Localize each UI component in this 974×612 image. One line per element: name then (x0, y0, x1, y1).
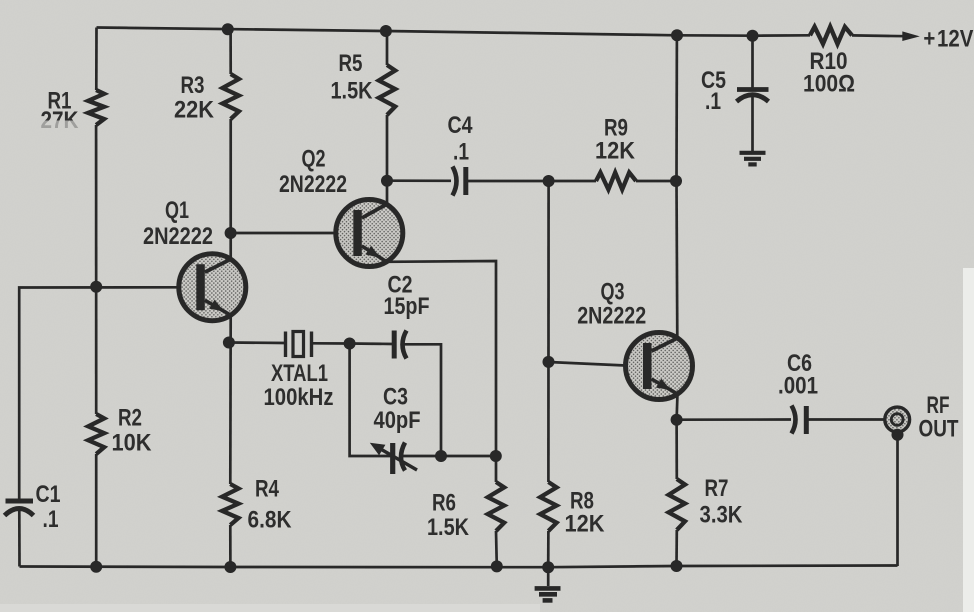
wire R10 to +12V arrow (852, 34, 906, 37)
wire Q1 emitter node to XTAL1 (229, 341, 286, 344)
junction node 5 (90, 281, 102, 293)
resistor R5 (379, 65, 395, 115)
resistor R7 (669, 479, 685, 530)
wire Q3 emitter node to C6 (677, 418, 791, 421)
junction node 6 (225, 227, 237, 239)
capacitor C1 (5, 501, 34, 516)
wire R5 to Q2 collector (386, 115, 389, 205)
wire Q1 base to C1 (left loop) (19, 287, 179, 499)
wire Q1 emitter down to R4 (229, 315, 232, 485)
wire RF OUT terminal down to bottom rail (896, 431, 899, 566)
resistor R8 (540, 482, 556, 531)
junction node 4 (747, 30, 759, 42)
wire node A to C2 (350, 342, 394, 345)
junction node 11 (670, 175, 682, 187)
junction node 17 (90, 561, 102, 573)
transistor Q1 (179, 254, 246, 321)
junction node 12 (543, 356, 555, 368)
junction node 20 (542, 561, 554, 573)
junction node 13 (435, 450, 447, 462)
junction node 9 (381, 175, 393, 187)
junction node 18 (224, 561, 236, 573)
resistor R1 (88, 90, 104, 125)
junction node 2 (380, 25, 392, 37)
wire C3 to node B and emitter line (403, 455, 496, 458)
variable capacitor C3 (370, 443, 417, 475)
capacitor C5 (737, 90, 769, 102)
ground symbol (bottom rail) (535, 567, 561, 600)
capacitor C4 (453, 167, 466, 196)
RF OUT connector terminal (885, 407, 910, 432)
resistor R2 (88, 414, 104, 454)
resistor R3 (223, 74, 239, 119)
wire R2 to bottom rail (95, 454, 98, 567)
junction node 21 (671, 560, 683, 572)
wire Q3 emitter to node (675, 394, 679, 421)
wire R1 to R2 (95, 125, 98, 414)
ground symbol (C5) (740, 153, 766, 165)
left vertical wire (R1 branch) x=96 (95, 28, 98, 91)
right edge paper margin (963, 268, 974, 612)
bottom edge light strip (0, 604, 540, 612)
transistor Q3 (626, 333, 693, 400)
junction node 16 (892, 429, 904, 441)
vertical wire x=548 (C4/R9 node down to R8) (547, 181, 550, 482)
resistor R4 (222, 484, 238, 525)
wire XTAL1 to node A (312, 342, 350, 345)
crystal XTAL1 (286, 332, 312, 358)
capacitor C6 (792, 406, 807, 435)
wire R9 to Q3 collector line (636, 180, 677, 183)
junction node 14 (490, 450, 502, 462)
+12V arrowhead (902, 31, 920, 41)
wire C2 to x=441 corner down to C3 node B (405, 344, 442, 456)
wire C4 to R9 node (466, 180, 596, 183)
wire C6 to RF OUT terminal (806, 418, 885, 421)
wire R4 to bottom rail (229, 525, 232, 567)
junction node 19 (491, 560, 503, 572)
faded print area over 27K (26, 121, 92, 135)
wire R9 node down to Q3 collector (675, 181, 678, 339)
wire C1 to bottom rail (18, 508, 21, 567)
wire node A down to C3 (350, 344, 391, 457)
wire R6 to bottom rail (495, 531, 498, 567)
top power rail wire (97, 28, 811, 36)
transistor Q2 (336, 200, 403, 267)
bottom ground rail wire (20, 566, 898, 568)
R5/Q2 collector vertical wire x=387 (386, 31, 389, 65)
R3 branch vertical wire x=230.7 (229, 29, 232, 74)
junction node 10 (543, 175, 555, 187)
resistor R9 (596, 173, 636, 190)
wire Q3 base (549, 362, 626, 366)
wire C4 coupling line y=181 (387, 179, 451, 182)
junction node 3 (671, 29, 683, 41)
junction node 8 (344, 338, 356, 350)
wire R8 to bottom rail (547, 531, 550, 567)
wire Q3 emitter node down to R7 (675, 420, 678, 479)
wire C5 to ground (751, 96, 754, 152)
capacitor C5 branch: wire from top rail (751, 36, 754, 88)
resistor R6 (488, 482, 504, 531)
resistor R10 (810, 27, 852, 44)
junction node 1 (222, 23, 234, 35)
wire Q1 collector node to Q2 base (231, 232, 336, 235)
Q3 collector vertical wire x=676.5 (675, 35, 678, 181)
junction node 7 (223, 337, 235, 349)
wire Q2 emitter to R6 branch (387, 261, 497, 482)
capacitor C2 (394, 331, 406, 359)
wire R3 to Q1 collector (229, 119, 232, 260)
junction node 15 (671, 414, 683, 426)
wire R7 to bottom rail (675, 530, 678, 567)
